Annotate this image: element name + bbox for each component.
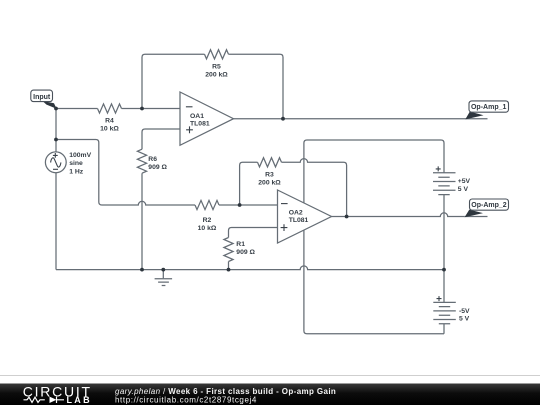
svg-text:TL081: TL081 [190,120,210,127]
node junction dot R2-R3-OA2 [238,203,242,207]
svg-text:R2: R2 [203,217,212,224]
resistor R6 [137,149,167,173]
wire input column down to source [55,109,57,152]
svg-text:R1: R1 [236,241,245,248]
resistor R5 [205,50,229,79]
svg-text:5 V: 5 V [458,186,469,193]
svg-text:200 kΩ: 200 kΩ [258,180,281,187]
svg-text:R6: R6 [148,156,157,163]
wire source bottom to ground row [55,173,57,270]
node junction dot battery-ground [442,268,446,272]
node junction dot source top branch [54,138,58,142]
ground [155,270,173,286]
node junction dot ground symbol [161,268,165,272]
wire ground row with hop over OA2 V- wire [56,266,444,270]
svg-text:Op-Amp_2: Op-Amp_2 [471,202,507,209]
svg-text:5 V: 5 V [459,316,470,323]
op-amp OA1 TL081 [180,92,234,145]
battery V2 +5V [433,166,471,194]
flag Op-Amp_2 [465,199,509,217]
node junction dot R3-output [345,215,349,219]
node junction dot R1-ground [227,268,231,272]
battery V3 -5V [433,296,470,324]
voltage source V1 100mV sine [45,152,91,175]
svg-text:200 kΩ: 200 kΩ [205,72,228,79]
svg-text:TL081: TL081 [289,217,309,224]
resistor R3 [258,158,282,187]
footer title text [115,387,336,405]
svg-text:OA1: OA1 [190,113,204,120]
wire OA2 output row with hop over battery column to Op-Amp_2 anchor [332,213,465,217]
svg-text:http://circuitlab.com/c2t2879t: http://circuitlab.com/c2t2879tcgej4 [115,395,257,404]
node junction dot R6-ground [140,268,144,272]
resistor R4 [98,104,122,133]
svg-text:100mV: 100mV [69,152,91,159]
footer bar [0,384,540,405]
wire V+ net from +5V battery top to OA2 V+ pin [304,140,444,203]
separator line [0,375,540,377]
wire R3 feedback loop with hop over OA2 V+ wire [240,159,347,217]
svg-text:909 Ω: 909 Ω [148,164,167,171]
svg-text:Input: Input [33,94,51,101]
svg-text:1 Hz: 1 Hz [69,168,84,175]
svg-text:LAB: LAB [67,395,92,405]
wire OA2 V- pin down to negative rail [304,230,444,334]
wire battery middle column [443,195,445,334]
svg-text:R5: R5 [212,64,221,71]
svg-text:sine: sine [69,160,83,167]
node junction dot R5-output [281,117,285,121]
svg-text:10 kΩ: 10 kΩ [198,225,217,232]
resistor R1 [224,238,256,262]
node junction dot input anchor [54,107,58,111]
wire OA1 output row to Op-Amp_1 flag anchor [234,118,466,120]
flag Op-Amp_1 [465,101,508,120]
resistor R2 [195,200,219,231]
svg-text:-5V: -5V [459,308,470,315]
svg-text:Op-Amp_1: Op-Amp_1 [471,104,507,111]
wire branch from source node to R2 row with hop over R6 leg [56,140,278,206]
footer CircuitLab logo [23,384,92,405]
wire input row from Input anchor to OA1 inverting input [56,108,180,110]
svg-text:R4: R4 [105,118,114,125]
wire R5 feedback loop left leg and top row [142,54,283,118]
svg-text:+5V: +5V [458,178,471,185]
wire OA2 non-inverting leg down through R1 to ground row [229,228,278,270]
svg-text:909 Ω: 909 Ω [236,249,255,256]
flag Input [31,90,57,109]
svg-text:R3: R3 [265,172,274,179]
svg-text:10 kΩ: 10 kΩ [100,126,119,133]
wire OA1 non-inverting leg down through R6 to ground row [142,129,180,270]
op-amp OA2 TL081 [278,190,332,243]
node junction dot R4-R5-OA1 [140,107,144,111]
svg-text:OA2: OA2 [289,210,303,217]
